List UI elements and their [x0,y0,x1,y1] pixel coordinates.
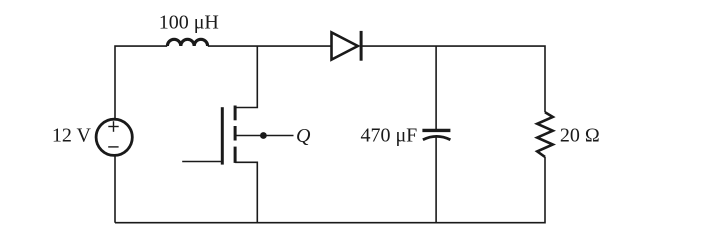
label 20 Ohm [560,125,600,147]
svg-text:100 μH: 100 μH [159,12,219,34]
wire top rail inductor-to-diode segment [208,45,332,47]
svg-text:470 μF: 470 μF [360,125,417,147]
svg-text:Q: Q [296,125,311,147]
transistor Q gate bar [221,107,224,164]
wire capacitor branch lower [435,137,437,223]
voltage source plus sign [108,121,118,132]
label Q [296,125,311,147]
transistor Q channel middle dash [234,126,237,141]
inductor L1 coils [167,39,207,46]
wire top rail left segment [115,46,167,118]
svg-text:12 V: 12 V [52,125,92,147]
voltage source V1 circle [96,119,132,155]
capacitor C1 bottom curved plate [423,136,451,139]
wire drain branch [235,46,257,107]
wire top rail diode-to-right segment [362,46,545,112]
diode D1 cathode bar [360,31,363,61]
transistor Q channel bottom dash [234,147,237,163]
resistor R1 zigzag [537,112,553,157]
voltage source minus sign [108,146,118,148]
node dot on Q wire [260,132,267,139]
wire source branch [235,162,257,222]
wire capacitor branch upper [435,46,437,130]
wire gate stub [182,161,221,163]
svg-text:20 Ω: 20 Ω [560,125,600,147]
wire bottom rail [115,157,545,223]
transistor Q channel top dash [234,106,237,121]
capacitor C1 top plate [422,129,450,132]
wire bulk-to-Q label [237,135,294,137]
label 12 V [52,125,92,147]
diode D1 triangle [332,32,358,59]
label 100 uH [159,12,219,34]
wire left branch below source [114,156,116,223]
label 470 uF [360,125,417,147]
